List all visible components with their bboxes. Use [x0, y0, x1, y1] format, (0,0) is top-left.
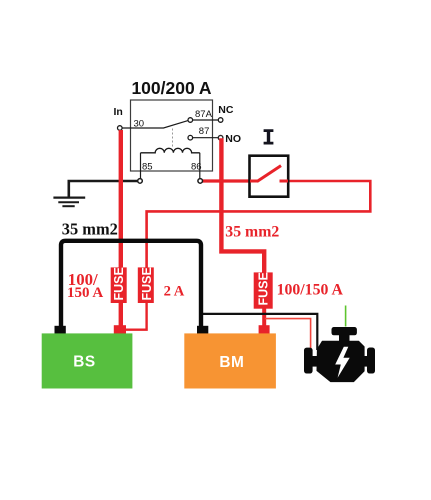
svg-text:85: 85: [142, 161, 153, 172]
relay pin 30 wire (In to pivot): [122, 121, 188, 128]
battery BM positive terminal: [259, 325, 270, 334]
svg-text:150 A: 150 A: [67, 285, 103, 301]
battery BM negative terminal: [197, 326, 208, 335]
terminal circle below 85: [138, 179, 143, 184]
terminal 87 circle: [188, 135, 193, 140]
fuse F2: [138, 267, 154, 303]
svg-text:BM: BM: [219, 354, 244, 371]
terminal 87A circle: [188, 118, 193, 123]
engine M1 left axle: [304, 348, 313, 374]
wire: NO thick red down to fuse F3: [221, 138, 264, 273]
svg-text:100/150 A: 100/150 A: [277, 281, 344, 298]
ground symbol: [53, 197, 85, 199]
fuse F1: [111, 267, 127, 303]
engine M1 left link: [312, 356, 318, 367]
svg-text:In: In: [114, 106, 123, 118]
svg-text:100/200 A: 100/200 A: [131, 78, 211, 98]
relay coil lead 86: [199, 153, 201, 179]
engine M1 neck: [339, 335, 350, 342]
battery BM: [184, 333, 276, 388]
relay U1 body: [131, 100, 213, 171]
engine M1 lightning bolt: [335, 347, 350, 378]
battery BS: [42, 333, 133, 388]
svg-text:BS: BS: [73, 354, 95, 371]
wire: relay 86 to switch (red): [202, 179, 258, 182]
wire: In thick red down to fuse F1: [119, 130, 123, 268]
wire: fuse F3 to BM+: [262, 307, 266, 326]
svg-text:87: 87: [199, 126, 210, 137]
fuse F3: [254, 272, 273, 308]
terminal circle below 86: [198, 179, 203, 184]
terminal NC circle: [218, 118, 223, 123]
battery BS positive terminal: [114, 325, 126, 334]
wire: BM+ to engine (thin red): [265, 319, 311, 349]
relay pin 87A wire to NC: [193, 119, 219, 121]
switch S1 box: [250, 156, 289, 197]
svg-text:35 mm2: 35 mm2: [62, 220, 118, 239]
svg-text:35 mm2: 35 mm2: [225, 224, 279, 241]
svg-text:NO: NO: [225, 133, 241, 145]
wire: switch out to 2A fuse loop (red): [147, 181, 371, 268]
engine M1 body: [317, 341, 364, 381]
relay actuator dashed link: [172, 129, 174, 148]
wire: BM- to engine (thin black): [202, 314, 317, 350]
spark line (green) above engine: [345, 306, 347, 327]
svg-text:87A: 87A: [195, 109, 213, 120]
wire: ground from relay 85: [69, 181, 139, 197]
battery BS negative terminal: [55, 326, 66, 335]
engine M1 right link: [364, 356, 370, 367]
wire: fuse F1 to BS+: [119, 302, 123, 326]
svg-text:2 A: 2 A: [164, 283, 185, 299]
wire: 35mm2 black loop BS- to BM-: [61, 241, 201, 327]
svg-text:FUSE: FUSE: [140, 267, 154, 300]
engine M1 right axle: [367, 348, 375, 374]
svg-text:FUSE: FUSE: [256, 272, 270, 305]
switch S1 contacts: [250, 180, 258, 183]
relay pin 87 wire to NO: [193, 137, 219, 139]
svg-text:NC: NC: [218, 104, 234, 116]
terminal In circle: [118, 126, 123, 131]
svg-text:30: 30: [134, 118, 145, 129]
svg-text:FUSE: FUSE: [112, 267, 126, 300]
switch S1 label I: [264, 129, 274, 144]
relay coil lead 85: [140, 153, 142, 179]
terminal NO circle: [218, 135, 223, 140]
svg-text:86: 86: [191, 161, 202, 172]
engine M1 valve cover: [332, 327, 357, 335]
relay coil: [141, 148, 200, 153]
wire: fuse F2 to BS+ (thin red): [125, 302, 147, 330]
